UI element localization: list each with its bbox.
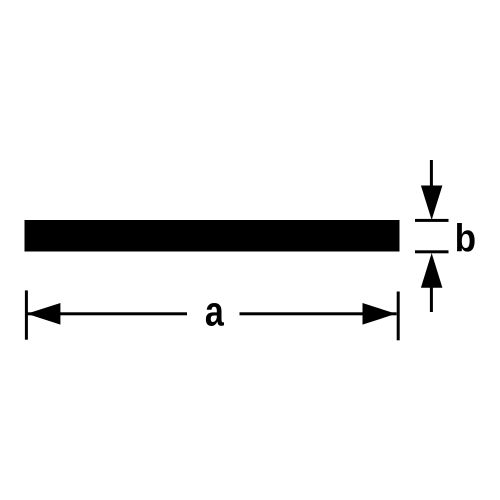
dimension a: right extension line xyxy=(397,292,400,341)
dimension a: horizontal line right segment xyxy=(240,312,397,315)
dimension b: down arrowhead xyxy=(421,186,443,221)
dimension a: right arrowhead xyxy=(363,303,397,325)
dimension b: upper extension tick xyxy=(415,219,449,222)
dimension a: left extension line xyxy=(25,290,28,339)
dimension b: up arrowhead xyxy=(421,253,443,288)
dimension b: lower extension tick xyxy=(415,250,449,253)
dimension b: up arrow leader line xyxy=(430,286,433,312)
svg-text:b: b xyxy=(455,216,476,260)
dimension a: horizontal line left segment xyxy=(27,312,187,315)
dimension b: down arrow leader line xyxy=(430,160,433,190)
svg-text:a: a xyxy=(205,290,225,336)
flat bar profile (solid cross-section) xyxy=(25,220,400,252)
dimension a: left arrowhead xyxy=(27,303,61,325)
